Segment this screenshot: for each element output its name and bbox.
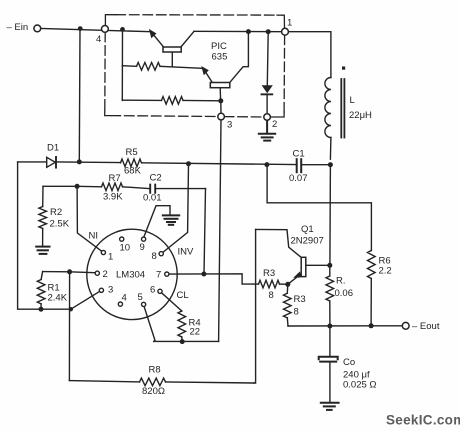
svg-text:2.2: 2.2 (379, 266, 392, 277)
svg-text:2: 2 (103, 269, 108, 280)
svg-text:22μH: 22μH (349, 110, 372, 121)
svg-text:C2: C2 (150, 173, 162, 184)
svg-text:3: 3 (227, 120, 232, 131)
svg-text:R8: R8 (149, 365, 161, 376)
svg-text:CL: CL (177, 290, 189, 301)
svg-text:0.07: 0.07 (289, 173, 308, 184)
svg-text:2.4K: 2.4K (48, 293, 68, 304)
svg-text:2: 2 (272, 119, 277, 130)
svg-text:R2: R2 (50, 207, 62, 218)
svg-text:0.06: 0.06 (335, 288, 354, 299)
svg-text:SeekIC.com: SeekIC.com (386, 413, 460, 428)
svg-text:4: 4 (96, 34, 101, 45)
svg-text:820Ω: 820Ω (142, 386, 165, 397)
svg-text:NI: NI (89, 231, 99, 242)
svg-text:R.: R. (336, 276, 346, 287)
svg-text:8: 8 (294, 307, 299, 318)
svg-text:8: 8 (152, 251, 157, 262)
svg-text:0.025 Ω: 0.025 Ω (343, 380, 377, 391)
svg-text:Q1: Q1 (301, 224, 314, 235)
svg-text:C1: C1 (293, 149, 305, 160)
svg-text:R3: R3 (294, 294, 306, 305)
svg-text:L: L (350, 95, 355, 106)
svg-text:D1: D1 (47, 143, 59, 154)
svg-text:R7: R7 (109, 173, 121, 184)
svg-text:3.9K: 3.9K (103, 192, 123, 203)
svg-text:LM304: LM304 (116, 270, 145, 281)
svg-text:8: 8 (269, 290, 274, 301)
svg-text:68K: 68K (124, 166, 142, 177)
svg-text:PIC: PIC (211, 41, 227, 52)
svg-text:5: 5 (138, 292, 143, 303)
svg-text:4: 4 (122, 293, 127, 304)
svg-text:1: 1 (108, 252, 113, 263)
svg-text:9: 9 (140, 242, 145, 253)
svg-text:Co: Co (343, 357, 355, 368)
svg-text:2.5K: 2.5K (50, 219, 70, 230)
svg-text:INV: INV (178, 247, 195, 258)
svg-text:22: 22 (190, 327, 201, 338)
svg-text:10: 10 (120, 243, 131, 254)
svg-text:– Ein: – Ein (7, 22, 29, 33)
svg-text:R5: R5 (126, 147, 138, 158)
svg-text:– Eout: – Eout (412, 321, 440, 332)
svg-text:635: 635 (212, 52, 228, 63)
svg-text:7: 7 (156, 270, 161, 281)
svg-text:0.01: 0.01 (143, 193, 162, 204)
svg-text:1: 1 (287, 18, 292, 29)
svg-text:3: 3 (108, 285, 113, 296)
svg-text:R3: R3 (263, 268, 275, 279)
svg-text:2N2907: 2N2907 (291, 236, 324, 247)
svg-text:6: 6 (150, 285, 155, 296)
